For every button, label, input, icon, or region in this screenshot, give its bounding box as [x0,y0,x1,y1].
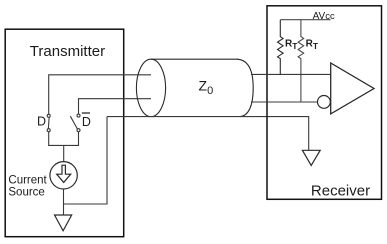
svg-text:Receiver: Receiver [311,183,370,200]
svg-text:Current: Current [8,175,47,187]
AVcc rail [280,19,330,21]
transmitter box [5,29,124,237]
receiver box [267,6,382,200]
ground (transmitter) [55,215,72,231]
transmission line Z0 cylinder [136,59,253,116]
wire long bottom return (doubles as cylinder bottom) to receiver ground [107,117,309,151]
switch D (closed) [47,114,50,131]
wire switch bottoms join [49,132,79,145]
wire current source to ground [63,189,65,215]
wire center tap to current source [63,145,65,161]
svg-text:Transmitter: Transmitter [30,43,105,60]
svg-text:RT: RT [285,39,298,52]
resistor RT right [298,20,304,102]
inverting input bubble [318,96,331,109]
wire return path (junction right and up) [64,117,108,204]
resistor RT left [277,20,283,75]
switch D-bar (open) [70,114,80,132]
svg-text:D: D [82,115,91,129]
svg-text:AVcc: AVcc [313,11,335,22]
wire top signal (left switch up and out to line) [49,75,151,114]
svg-text:Source: Source [8,187,44,199]
svg-text:RT: RT [306,39,319,52]
wire receiver top input [251,73,331,75]
svg-text:D: D [37,114,46,128]
wire receiver lower input [251,101,317,103]
current source I1 [50,162,77,189]
ground (receiver) [302,150,320,165]
op-amp U1 [331,63,374,114]
wire second signal (right switch up and out to line) [79,99,152,114]
